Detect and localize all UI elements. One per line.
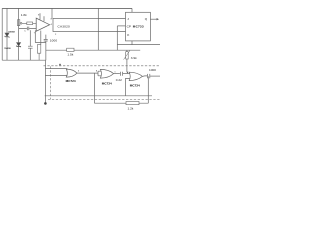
wire gate1 input B [45,74,67,76]
svg-text:MC724: MC724 [102,82,112,86]
wire G2 output [114,73,120,75]
wire R5 to output [139,76,148,103]
wire rail drop to U2 [131,8,133,12]
svg-text:4: 4 [51,24,53,26]
wire below D2 [18,46,20,60]
wire right mid net [117,44,160,46]
wire CP net [117,25,125,27]
svg-text:MC724: MC724 [66,79,76,83]
wire U2 bottom stub [131,41,133,45]
svg-text:K: K [127,33,130,37]
diode D2 zener [17,43,21,47]
dashed module boundary bottom [48,98,160,100]
node input terminal [20,22,22,24]
wire G2 input stubs [98,71,101,76]
diode D1 zener [5,33,9,37]
wire op-amp bottom pin 2 [40,31,42,45]
node boundary arrow [59,64,61,66]
resistor R5 [126,102,139,105]
svg-text:1.2k: 1.2k [128,107,134,110]
wire bottom rail [2,59,45,61]
wire ground rail [45,95,152,97]
svg-text:MC724: MC724 [130,83,140,87]
wire R3 to rail [38,53,40,60]
wire module left stub to rail [51,8,53,18]
wire module right edge down [97,32,99,51]
wire feedback bottom [94,102,126,104]
logic gate G3 [129,72,142,80]
svg-text:8: 8 [51,18,53,20]
wire CP vertical [116,26,118,50]
svg-text:5: 5 [78,71,80,73]
wire C1 string [29,30,31,60]
svg-text:1.8k: 1.8k [21,13,27,17]
svg-text:8: 8 [96,70,98,72]
svg-text:0.22: 0.22 [116,78,122,82]
svg-text:1000: 1000 [50,39,58,43]
svg-text:J: J [127,17,129,21]
dashed module boundary top [44,65,161,67]
wire top supply rail [2,7,132,9]
wire left border [1,8,3,60]
svg-text:3.9k: 3.9k [131,56,137,60]
capacitor C1 [28,46,33,48]
wire below D1 [6,37,8,60]
capacitor C2 [27,27,29,31]
resistor R2 [27,22,33,25]
svg-text:2: 2 [55,34,57,36]
logic gate G2 [100,69,113,78]
svg-text:Q: Q [145,17,148,21]
node junction arrow A [127,72,129,74]
dashed module boundary left [50,66,52,99]
wire vertical branch 2 [18,8,20,42]
node output arrow [157,18,159,20]
capacitor C4 [120,72,122,76]
wire G3 lower input [125,78,129,95]
svg-text:CA3020: CA3020 [58,24,71,28]
flip-flop U2 box [126,12,151,41]
logic gate G1 [66,69,77,77]
svg-text:C: C [24,30,26,32]
wire input upper [22,22,36,24]
svg-text:1N958: 1N958 [4,48,11,50]
wire J net [98,17,125,19]
svg-text:1.5k: 1.5k [67,52,73,56]
op-amp U1 [36,18,49,31]
wire mid horizontal net [46,49,140,51]
wire trimmer to gate net [126,65,128,73]
potentiometer RT1 [126,50,128,64]
wire feedback tap down [93,73,95,103]
svg-text:MC733: MC733 [133,25,144,29]
svg-text:1N958: 1N958 [8,32,15,34]
wire vertical branch 1 [6,8,8,33]
wire C3 string [45,35,47,61]
wire G1 output to G2 [77,72,98,74]
capacitor C5 [148,74,150,78]
wire input lower [19,27,36,29]
ground G [44,96,46,103]
resistor R4 [67,48,74,51]
svg-text:CP: CP [127,25,131,29]
amplifier module box CA3020 [53,18,98,31]
wire K net [98,31,125,33]
wire Q output [150,18,157,20]
svg-text:1000: 1000 [149,68,156,72]
wire op-amp top pin stubs [40,13,44,21]
capacitor C3 1000 [44,39,48,41]
wire gate1 input A [45,60,67,96]
wire C4 to G3 [123,73,130,75]
wire module top to rail [97,8,99,18]
wire output right [150,75,160,77]
resistor R3 [37,45,40,54]
wire op-amp bottom pin 1 [35,30,45,42]
resistor R1 [18,20,20,26]
wire G3 output [142,75,147,78]
